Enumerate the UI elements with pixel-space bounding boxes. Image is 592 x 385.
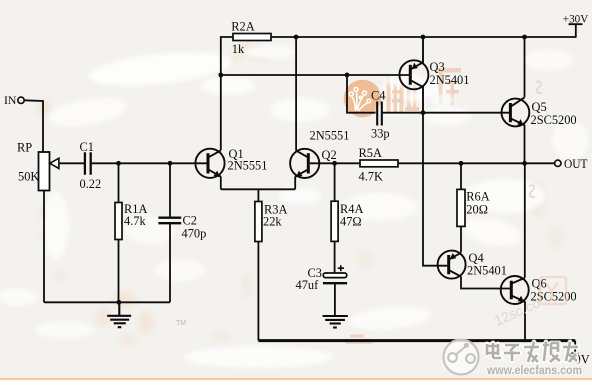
capacitor C2 xyxy=(158,218,181,224)
terminal OUT xyxy=(555,160,561,166)
node C4 tap xyxy=(345,73,350,78)
watermark pink char wei xyxy=(387,74,420,112)
resistor R4A xyxy=(331,201,338,241)
wire ground line left xyxy=(44,301,170,303)
wire R3A stem bottom xyxy=(257,241,259,340)
node Q2 base feedback xyxy=(332,161,337,166)
wire C3 to ground xyxy=(334,284,336,316)
svg-text:2N5401: 2N5401 xyxy=(430,73,470,87)
wire C4 right to Q5 base xyxy=(383,112,510,114)
resistor R1A xyxy=(115,203,122,240)
transistor Q1 2N5551 xyxy=(195,149,224,178)
transistor Q3 2N5401 xyxy=(399,37,428,113)
resistor R6A xyxy=(457,189,465,226)
wire R1A stem bottom xyxy=(118,240,120,303)
wire R4A stem top xyxy=(334,163,336,201)
svg-text:470p: 470p xyxy=(182,227,207,241)
svg-text:www.elecfans.com: www.elecfans.com xyxy=(486,363,582,377)
wire 0V terminal step xyxy=(570,341,579,354)
watermark dzsc orange disc logo xyxy=(344,80,382,118)
svg-text:47uf: 47uf xyxy=(296,278,320,292)
wire common emitter line xyxy=(221,188,295,190)
terminal IN xyxy=(18,97,24,103)
wire IN lead xyxy=(24,100,43,152)
resistor R2A xyxy=(233,34,271,41)
svg-text:50K: 50K xyxy=(18,170,39,184)
wire Q2 collector riser xyxy=(295,37,297,151)
watermark chinese text dianzi fashaoyou xyxy=(486,342,578,362)
wire Q5 collector riser xyxy=(524,37,526,97)
wire Q4 collector down and right to Q6 base xyxy=(461,277,510,289)
svg-text:+30V: +30V xyxy=(563,12,589,26)
wire Q1 collector riser xyxy=(220,75,222,150)
svg-text:R2A: R2A xyxy=(231,20,254,34)
svg-text:33p: 33p xyxy=(371,127,390,141)
node C2 tap xyxy=(168,161,173,166)
watermark peach speckles xyxy=(38,44,564,346)
wire +30V riser xyxy=(569,24,583,37)
wire RP wiper to C1 xyxy=(61,162,84,164)
watermark faint gray curls top right xyxy=(529,81,542,197)
watermark pink smudge on 0V rail xyxy=(345,335,373,344)
wire R5A right to OUT xyxy=(398,162,554,164)
node R1A tap xyxy=(116,161,121,166)
node VAS output xyxy=(421,110,426,115)
resistor R3A xyxy=(255,202,262,242)
wire Q1 emitter to common xyxy=(220,177,222,190)
wire Q5 emitter to output node xyxy=(524,125,526,164)
wire R1A stem top xyxy=(118,163,120,202)
wire 0V bottom rail xyxy=(258,339,575,342)
svg-text:TM: TM xyxy=(176,320,186,327)
wire C4 branch left xyxy=(347,75,376,113)
capacitor C3 electrolytic xyxy=(323,265,347,283)
wire Q2 base to node xyxy=(310,162,335,164)
watermark white blobs over chars xyxy=(384,73,455,106)
svg-text:22k: 22k xyxy=(263,215,282,229)
node output junction xyxy=(522,161,527,166)
svg-text:R5A: R5A xyxy=(359,146,382,160)
svg-text:2N5551: 2N5551 xyxy=(310,129,350,143)
svg-text:OUT: OUT xyxy=(564,157,588,171)
node Q3 emitter on rail xyxy=(421,35,426,40)
svg-text:47Ω: 47Ω xyxy=(340,215,362,229)
node ground line xyxy=(117,300,122,305)
svg-text:C2: C2 xyxy=(183,214,197,228)
wire R4A stem to C3 xyxy=(334,241,336,273)
wire top +30V rail xyxy=(271,36,577,38)
svg-text:RP: RP xyxy=(17,141,32,155)
wire Q6 emitter to 0V rail xyxy=(524,302,526,341)
svg-text:2N5551: 2N5551 xyxy=(228,159,268,173)
svg-text:IN: IN xyxy=(4,93,17,107)
svg-text:Q5: Q5 xyxy=(532,100,547,114)
svg-text:0.22: 0.22 xyxy=(80,177,102,191)
wire R3A stem top xyxy=(257,189,259,201)
WATERMARKS_FRONT xyxy=(176,277,582,377)
watermark pink net char near Q6 xyxy=(540,277,566,304)
wire C2 stem top xyxy=(169,163,171,217)
wire C2 stem bottom xyxy=(169,224,171,303)
potentiometer RP xyxy=(39,152,62,191)
svg-text:4.7k: 4.7k xyxy=(124,214,146,228)
wire node to R5A left xyxy=(335,162,360,164)
resistor R5A xyxy=(360,160,398,167)
wire R6A to Q4 emitter xyxy=(460,226,462,252)
node Q2 collector on rail xyxy=(294,35,299,40)
node Q5 collector on rail xyxy=(522,35,527,40)
watermark pink char ku xyxy=(436,68,461,105)
svg-text:C1: C1 xyxy=(80,140,94,154)
svg-text:Q2: Q2 xyxy=(322,148,337,162)
transistor Q2 2N5551 xyxy=(290,149,319,178)
wire VAS column Q3 collector down to Q4 base xyxy=(423,113,447,266)
junction node dots xyxy=(116,35,527,305)
node R6A tap xyxy=(459,161,464,166)
wire Q2 emitter drop xyxy=(294,177,296,190)
wire RP bottom to ground line xyxy=(43,191,45,303)
transistor Q4 2N5401 xyxy=(438,251,466,279)
ground symbol left xyxy=(107,302,131,327)
wire R2A left lead and bend down xyxy=(221,37,233,76)
svg-text:Q3: Q3 xyxy=(430,60,445,74)
wire C1 to Q1 base xyxy=(91,162,207,164)
svg-text:20Ω: 20Ω xyxy=(466,202,488,216)
transistor Q5 2SC5200 xyxy=(502,97,530,126)
svg-text:2N5401: 2N5401 xyxy=(467,264,507,278)
capacitor C4 xyxy=(377,102,382,126)
svg-text:4.7K: 4.7K xyxy=(359,170,383,184)
wire node line y75 Q1 collector to Q3 base xyxy=(221,74,410,76)
svg-text:C4: C4 xyxy=(371,89,385,103)
ground symbol under C3 xyxy=(323,316,348,328)
wire R6A stem top xyxy=(460,163,462,189)
bottom border line xyxy=(0,378,592,380)
wire Q6 collector riser to output node xyxy=(524,163,526,277)
node Q1 collector R2A xyxy=(218,73,223,78)
svg-text:1k: 1k xyxy=(232,42,245,56)
watermark elecfans logo disc xyxy=(444,340,479,375)
svg-text:2SC5200: 2SC5200 xyxy=(531,113,577,127)
transistor Q6 2SC5200 xyxy=(501,276,529,304)
capacitor C1 xyxy=(85,152,91,175)
